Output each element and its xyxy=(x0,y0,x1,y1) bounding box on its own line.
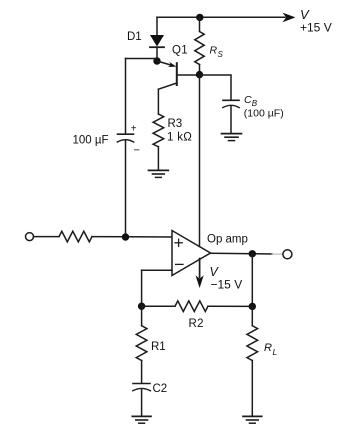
capacitor CB xyxy=(223,100,239,133)
resistor R3 xyxy=(153,114,164,170)
wire input line xyxy=(92,236,172,238)
label R3 1kΩ xyxy=(167,118,192,144)
wire to CB xyxy=(200,75,232,100)
supply arrow -15V xyxy=(196,259,204,289)
node top rail junction xyxy=(196,14,203,21)
wire supply down xyxy=(199,75,201,247)
label CB xyxy=(244,94,284,120)
svg-text:−15 V: −15 V xyxy=(211,278,243,292)
wire left branch xyxy=(126,59,158,135)
svg-text:L: L xyxy=(273,347,278,357)
ground RL xyxy=(243,416,262,423)
wire RL branch xyxy=(251,254,253,307)
svg-text:R1: R1 xyxy=(151,341,166,353)
ground R3 xyxy=(149,170,169,177)
wire top rail xyxy=(157,16,285,18)
svg-text:C2: C2 xyxy=(153,383,168,395)
resistor R1 xyxy=(136,326,147,384)
transistor Q1 xyxy=(157,61,200,114)
wire R2 left lead xyxy=(142,305,175,307)
svg-text:1 kΩ: 1 kΩ xyxy=(167,132,192,144)
svg-text:−: − xyxy=(134,145,140,157)
svg-text:R: R xyxy=(264,342,272,354)
node output junction xyxy=(249,250,256,257)
label 100uF xyxy=(73,124,140,157)
svg-text:D1: D1 xyxy=(127,31,142,43)
svg-text:C: C xyxy=(244,94,252,106)
ground C2 xyxy=(132,416,151,423)
svg-text:(100 µF): (100 µF) xyxy=(244,108,284,120)
svg-text:R3: R3 xyxy=(168,118,183,130)
wire R2 right lead xyxy=(208,305,252,307)
svg-text:Q1: Q1 xyxy=(172,45,188,57)
resistor Rin xyxy=(59,231,92,242)
resistor RL xyxy=(247,326,258,416)
wire R1 top lead xyxy=(141,306,143,326)
label RL xyxy=(264,342,278,357)
label V +15V xyxy=(300,7,332,35)
svg-text:S: S xyxy=(218,50,224,59)
capacitor 100uF xyxy=(117,134,133,237)
input terminal xyxy=(26,233,34,241)
svg-text:100 µF: 100 µF xyxy=(73,135,109,147)
wire feedback xyxy=(142,270,172,306)
wire input lead xyxy=(34,236,60,238)
label RS xyxy=(210,45,224,60)
svg-text:Op amp: Op amp xyxy=(207,234,248,246)
node feedback junction xyxy=(138,303,145,310)
node input junction xyxy=(122,233,129,240)
op-amp U1 xyxy=(172,231,211,276)
wire diode anode lead xyxy=(156,17,158,35)
resistor RS xyxy=(195,17,204,74)
capacitor C2 xyxy=(133,384,151,417)
svg-text:R: R xyxy=(210,45,218,57)
node RL junction xyxy=(249,303,256,310)
diode D1 xyxy=(150,35,164,61)
svg-text:R2: R2 xyxy=(189,318,204,330)
label V -15V xyxy=(210,265,243,292)
ground CB xyxy=(222,134,242,141)
svg-text:+: + xyxy=(131,124,137,135)
resistor R2 xyxy=(175,301,208,312)
output terminal xyxy=(283,250,292,259)
node base junction xyxy=(196,71,203,78)
wire RL top lead xyxy=(251,306,253,325)
power arrow +15V xyxy=(283,13,296,23)
wire output xyxy=(211,252,273,255)
svg-text:+15 V: +15 V xyxy=(300,21,332,35)
node diode-emitter junction xyxy=(153,57,160,64)
